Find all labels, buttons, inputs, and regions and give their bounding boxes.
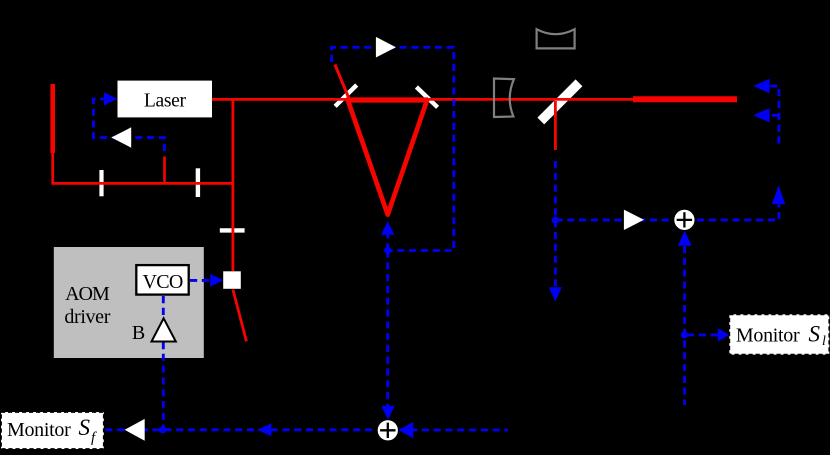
wire: VCO down to amplifier B: [162, 296, 165, 318]
wire: right riser upper segment: [769, 86, 779, 143]
svg-text:l: l: [822, 334, 826, 349]
Monitor Sf box: [1, 412, 104, 449]
arrow left lower at end mirror: [753, 108, 769, 122]
wire: bottom feedback line right part: [398, 429, 508, 432]
adder node right: [674, 209, 696, 231]
arrow left into bottom adder: [399, 422, 413, 439]
arrow up into right adder: [678, 230, 692, 245]
mirror M1: ring cavity input mirror: [335, 85, 357, 106]
wire: amplifier B down to bottom line: [162, 342, 165, 430]
mirror: concave-top element above beamsplitter: [537, 29, 575, 48]
arrow down into bottom adder: [381, 406, 395, 420]
arrow into laser: [104, 92, 117, 105]
wire: piezo drive up to cavity apex: [386, 235, 389, 251]
amplifier A2 (cavity loop top, points right): [376, 37, 396, 58]
AOM crystal square: [223, 271, 241, 289]
Monitor Sl box: [729, 314, 829, 354]
adder node bottom: [377, 419, 399, 441]
wire: beam down to AOM: [231, 99, 234, 271]
wire: thick beam at right (to end mirror): [633, 96, 737, 102]
wire: laser feedback path: [93, 99, 164, 151]
AOM driver box: [54, 247, 204, 358]
wire: main beam laser to ring cavity: [212, 98, 348, 101]
wire: beamsplitter PD signal down: [554, 161, 557, 220]
wire: beam cavity to beamsplitter and onward: [427, 98, 633, 101]
arrow up on right riser: [772, 185, 785, 204]
wire: PD junction to right chain: [555, 205, 779, 220]
wire: ring cavity loop top: [332, 47, 454, 250]
lens tick 1 on lower beam: [99, 170, 103, 196]
svg-text:B: B: [132, 322, 145, 344]
VCO box: [136, 265, 188, 295]
amplifier A3 (right chain, points right): [624, 210, 644, 230]
arrow up to cavity apex piezo: [381, 221, 394, 235]
lens tick 3 on AOM beam: [220, 228, 245, 232]
wire: ring cavity V beams: [348, 100, 428, 215]
wire: red stub up to feedback PD: [163, 157, 166, 185]
wire: thick red vertical beam far left: [50, 84, 55, 153]
wire: cavity rejected beam diagonal: [335, 65, 350, 100]
wire: AOM deflected beam: [233, 290, 247, 342]
wire: up into right adder from below: [683, 246, 686, 405]
amplifier A1 (laser feedback, points left): [111, 127, 131, 147]
wire: bottom feedback line left part: [105, 428, 378, 431]
svg-text:VCO: VCO: [143, 271, 183, 293]
arrow into AOM: [210, 274, 223, 287]
Laser box: [118, 81, 213, 118]
beamsplitter BS: [541, 83, 579, 121]
wire: PD down arrow line: [554, 220, 557, 287]
node: cavity loop junction: [384, 247, 391, 254]
lens tick 2 on lower beam: [196, 168, 200, 197]
wire: thick intracavity beam: [346, 97, 428, 102]
arrow left upper at end mirror: [753, 79, 769, 94]
node: BS PD junction: [552, 217, 559, 224]
lens: plano-concave element: [494, 79, 514, 118]
node: Sl branch junction: [681, 331, 688, 338]
wire: stub to lower left arrow at mirror: [769, 114, 779, 117]
wire: beam down from beamsplitter: [554, 101, 557, 150]
node: bottom line junction: [159, 426, 166, 433]
mirror M2: ring cavity second mirror: [416, 87, 437, 107]
wire: branch to Monitor Sl: [687, 333, 719, 336]
arrow into Monitor Sl: [718, 328, 730, 342]
wire: thin red beam left L (down then right to AOM axis): [53, 152, 233, 183]
amplifier A4 (bottom line, points left): [125, 419, 145, 441]
svg-text:Laser: Laser: [144, 90, 187, 111]
arrow left mid bottom line: [257, 423, 271, 436]
arrow down from BS photodiode: [549, 287, 562, 301]
amplifier B (points up): [152, 318, 176, 341]
wire: cavity signal down to bottom adder: [386, 250, 389, 406]
svg-text:S: S: [79, 415, 91, 440]
svg-text:Monitor: Monitor: [7, 419, 71, 441]
svg-text:AOM: AOM: [65, 283, 110, 305]
svg-text:driver: driver: [64, 306, 110, 328]
wire: VCO to AOM: [190, 279, 211, 282]
svg-text:S: S: [809, 321, 821, 346]
svg-text:Monitor: Monitor: [736, 324, 800, 346]
